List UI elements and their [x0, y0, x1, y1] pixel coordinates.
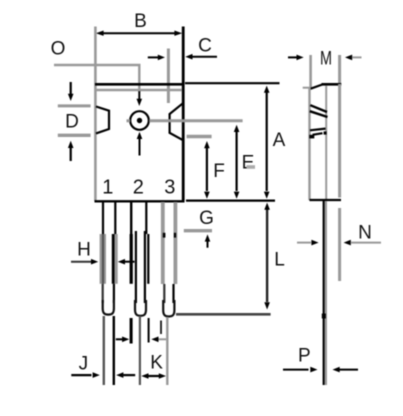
extension line A top: [185, 82, 280, 84]
package body top edge: [95, 83, 185, 86]
svg-text:J: J: [79, 354, 89, 375]
svg-text:G: G: [199, 208, 214, 229]
arrow I left: [116, 338, 123, 340]
pin 1: [102, 202, 104, 234]
arrow J left: [71, 374, 91, 376]
svg-text:K: K: [150, 353, 163, 374]
svg-text:D: D: [65, 112, 79, 133]
side view right edge: [338, 84, 341, 198]
extension line M left: [309, 55, 312, 88]
extension line bottom right: [186, 200, 275, 202]
svg-text:F: F: [213, 161, 225, 182]
side view gray stub: [303, 87, 311, 89]
extension line B left / body left edge: [94, 27, 97, 202]
svg-text:I: I: [158, 318, 163, 339]
svg-text:B: B: [134, 11, 147, 32]
artifact tick under E: [247, 165, 256, 169]
side view inner line: [325, 86, 327, 201]
extension I right: [148, 318, 150, 343]
side view left edge: [308, 88, 310, 200]
arrow H right: [118, 259, 125, 265]
left notch: [96, 107, 109, 134]
arrow G: [205, 234, 211, 241]
arrow J right: [116, 372, 123, 378]
extension pin1 tip right: [113, 316, 115, 385]
dimension line E: [236, 131, 238, 191]
extension I left: [130, 318, 133, 344]
arrow N left: [297, 242, 311, 244]
side view top edge: [322, 83, 342, 86]
lead (side view): [323, 201, 325, 385]
extension line L bottom: [176, 313, 271, 316]
arrow P right: [333, 367, 340, 373]
svg-text:A: A: [273, 130, 286, 151]
arrow below hole: [137, 132, 143, 139]
arrow N right: [344, 240, 351, 246]
arrow M left: [288, 56, 297, 58]
pin 3: [161, 202, 165, 284]
extension line G: [184, 229, 212, 232]
extension line F: [187, 135, 212, 139]
svg-text:2: 2: [133, 177, 144, 199]
svg-text:3: 3: [164, 177, 175, 199]
extension line N: [338, 208, 341, 281]
svg-text:N: N: [358, 223, 372, 244]
svg-text:L: L: [274, 250, 285, 271]
extension line D bottom: [58, 134, 91, 137]
arrow H left: [71, 261, 92, 263]
svg-text:E: E: [242, 153, 255, 174]
package step line: [96, 89, 182, 92]
dimension line F: [206, 148, 208, 192]
svg-text:O: O: [51, 39, 66, 60]
svg-text:H: H: [77, 240, 91, 261]
K center line pin3: [166, 317, 168, 385]
arrow P left: [283, 369, 309, 371]
package body bottom edge: [95, 200, 185, 202]
arrow C right: [185, 54, 192, 60]
svg-text:C: C: [198, 36, 212, 57]
arrow D top: [70, 82, 72, 95]
extension line B right / body right edge: [182, 27, 185, 202]
svg-text:M: M: [320, 49, 332, 70]
mounting hole: [130, 111, 149, 130]
extension line M right: [338, 55, 341, 84]
extension line D top: [58, 104, 91, 107]
extension pin1 tip left: [103, 316, 105, 385]
K double arrow: [141, 373, 148, 379]
arrow I right: [151, 337, 158, 343]
leader from hole: [149, 119, 242, 122]
dimension line B: [99, 32, 179, 34]
leader O: [54, 65, 139, 92]
dimension line L: [266, 209, 268, 302]
side view chamfer: [310, 85, 322, 89]
tab crimp marks: [310, 105, 327, 112]
arrow O to hole: [138, 91, 140, 100]
K center line pin2: [139, 316, 141, 385]
side view bottom edge: [310, 199, 342, 201]
arrow C left: [148, 56, 159, 58]
svg-text:1: 1: [102, 177, 113, 199]
dimension line A: [266, 92, 268, 191]
pin 2: [130, 202, 132, 234]
arrow M right: [345, 55, 352, 61]
arrow D bottom: [68, 141, 74, 148]
extension line C: [167, 49, 170, 104]
svg-text:P: P: [298, 346, 311, 367]
right notch: [170, 103, 183, 140]
